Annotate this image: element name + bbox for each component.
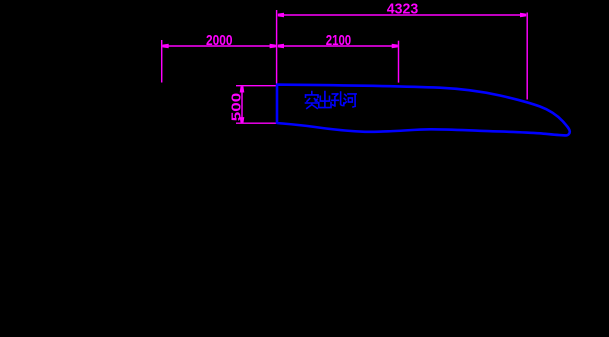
extension line right x=527 <box>526 13 528 100</box>
dimension line 4323 <box>278 14 526 16</box>
extension line right x=398.5 <box>398 41 400 83</box>
extension line left (shared vertical at x=277) <box>276 10 278 84</box>
arrowhead 2100 left <box>278 44 284 49</box>
arrowhead 500 top <box>240 86 245 92</box>
svg-text:2100: 2100 <box>326 32 352 49</box>
char 出 <box>319 92 331 108</box>
dimension 500 <box>236 86 277 124</box>
char 孔 <box>332 92 344 106</box>
arrowhead 4323 right <box>520 13 526 18</box>
arrowhead 2100 right <box>392 44 398 49</box>
extension line top y=85.7 <box>236 85 277 87</box>
dimension 4323 <box>277 10 528 100</box>
arrowhead 2000 right <box>270 44 276 49</box>
arrowhead 4323 left <box>278 13 284 18</box>
dimension line vertical x=242 <box>241 86 243 123</box>
label text 突出孔河 (drawn strokes, blue) <box>306 92 357 109</box>
svg-text:500: 500 <box>229 93 244 122</box>
arrowhead 2000 left <box>163 44 169 49</box>
dimension 2100 <box>278 41 399 83</box>
dimension line 2000 <box>163 45 276 47</box>
svg-text:2000: 2000 <box>206 32 233 49</box>
blade profile outline (blue) <box>277 85 570 136</box>
svg-text:4323: 4323 <box>387 0 419 17</box>
char 突 <box>306 92 319 109</box>
arrowhead 500 bottom <box>240 117 245 123</box>
dimension 2000 <box>162 40 276 83</box>
extension line bottom y=123.8 <box>236 122 277 124</box>
char 河 <box>344 94 356 107</box>
extension line left x=161.7 <box>161 40 163 83</box>
dimension line 2100 <box>278 45 398 47</box>
